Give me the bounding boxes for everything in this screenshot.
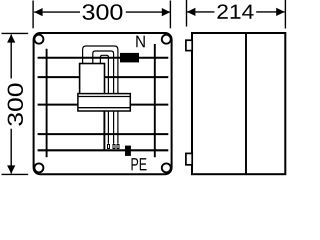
dimension 300 left: top arrowhead xyxy=(7,34,15,42)
PE label xyxy=(132,158,147,170)
terminal body xyxy=(80,64,105,95)
dimension 214 top: left extension line xyxy=(186,0,188,27)
grid vertical right xyxy=(154,44,156,157)
front view: enclosure outline xyxy=(34,33,172,174)
dimension 300 left: bottom arrowhead xyxy=(7,165,15,173)
busbar line 2 xyxy=(38,76,169,78)
rail plate upper flange line xyxy=(78,96,130,98)
terminal clamp square 2 xyxy=(113,145,115,149)
dimension 300 top: left arrowhead xyxy=(34,8,42,16)
busbar line 5 xyxy=(38,149,169,151)
front view: corner screw bottom-left xyxy=(34,163,43,172)
dimension 300 left: top extension line xyxy=(2,32,29,34)
mounting rail plate xyxy=(78,94,130,111)
dimension 300 left: line top segment xyxy=(10,35,12,79)
dimension 300 left: line bottom segment xyxy=(10,129,12,174)
wire loop inner xyxy=(100,55,108,143)
wire loop outer xyxy=(83,46,118,144)
dimension 214 top: right extension line xyxy=(284,0,286,29)
front view: corner screw bottom-right xyxy=(162,163,171,172)
side view: lid split line xyxy=(245,33,247,174)
dimension 300 top: line left segment xyxy=(34,11,80,13)
wire loop middle xyxy=(93,51,114,144)
N label xyxy=(136,36,145,48)
dimension 300 top: right arrowhead xyxy=(162,8,170,16)
terminal clamp square 1 xyxy=(108,145,110,149)
busbar line 1 xyxy=(38,57,169,59)
busbar line 4 xyxy=(38,133,169,135)
terminal clamp square 3 xyxy=(117,145,119,149)
side view: enclosure outline xyxy=(192,33,285,174)
dimension 214 top: left arrowhead xyxy=(187,8,195,16)
dimension 300 top: left extension line xyxy=(32,1,34,29)
wire stem under body xyxy=(103,93,105,150)
dimension 300 top: right extension line xyxy=(169,1,171,29)
dimension 214 top: line left segment xyxy=(187,11,214,13)
rail plate lower flange line xyxy=(78,107,130,109)
front view: corner screw top-left xyxy=(34,35,43,44)
front view: corner screw top-right xyxy=(162,35,171,44)
dimension 300 left: bottom extension line xyxy=(2,173,29,175)
dimension 214 top: value label xyxy=(217,4,253,18)
dimension 300 top: line right segment xyxy=(126,11,170,13)
side view: hinge tab bottom xyxy=(186,153,192,164)
grid vertical left xyxy=(46,49,48,158)
dimension 214 top: line right segment xyxy=(256,11,284,13)
busbar line 3 xyxy=(38,104,169,106)
side view: hinge tab top xyxy=(186,40,192,50)
dimension 300 top: value label xyxy=(83,4,123,20)
PE busbar block (filled) xyxy=(125,146,131,156)
dimension 300 left: value label (rotated) xyxy=(8,84,23,126)
dimension 214 top: right arrowhead xyxy=(276,8,284,16)
N busbar block (filled) xyxy=(120,53,139,63)
